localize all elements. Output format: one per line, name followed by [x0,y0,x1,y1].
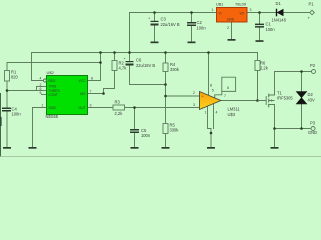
wire C3 leads [154,13,156,42]
svg-text:5: 5 [212,88,214,92]
wire +9V rail [32,52,258,54]
svg-text:OUT: OUT [79,106,86,110]
svg-text:4: 4 [216,111,218,115]
wire U$1 gnd pin2 [231,22,233,39]
svg-text:D2: D2 [308,92,314,97]
svg-text:2,2k: 2,2k [115,111,124,116]
svg-text:43V: 43V [308,98,316,103]
svg-text:2: 2 [227,26,229,30]
wire R4 chain [165,53,167,124]
TVS diode D2 43V [296,92,315,104]
wire 555 pin1 ground [33,108,47,148]
wire R1 bottom to TRIG/THR [7,87,37,91]
svg-text:100n: 100n [197,26,207,31]
ground T1/P3 [271,147,279,149]
voltage regulator U$1 78L09 [212,2,252,31]
ground opamp [207,147,215,149]
wire ground line to P3 [275,128,311,130]
svg-text:2: 2 [193,91,195,95]
svg-text:4: 4 [40,77,42,81]
wire top rail [130,12,277,14]
wire 555 pin7 to R2 [88,71,115,94]
ground C5 [131,147,139,149]
comparator U$3 LM311 [193,84,240,118]
wire R5 bottom [165,134,167,148]
wire opamp balance loop pins 5 6 [215,77,236,98]
svg-text:C2: C2 [197,20,203,25]
svg-text:7: 7 [90,90,92,94]
svg-text:P2: P2 [310,63,316,68]
ground 555 pin1 [29,147,37,149]
svg-text:LM311: LM311 [228,107,241,112]
diode D1 1N4148 [272,1,287,23]
svg-text:P3: P3 [310,121,316,126]
wire R3 to C5 to opamp minus input [125,107,200,109]
resistor R4 [163,62,180,72]
svg-text:7: 7 [224,94,226,98]
wire 555 pin5 stub [42,94,47,96]
svg-text:6: 6 [227,86,229,90]
svg-text:VCC: VCC [79,79,87,83]
svg-text:NE555: NE555 [46,114,59,119]
svg-text:3: 3 [90,104,92,108]
wire C1 leads [259,13,261,41]
svg-text:D1: D1 [276,1,282,6]
wire opamp output [221,100,266,102]
capacitor C3 electrolytic [148,17,180,28]
capacitor C4 [2,107,21,117]
svg-text:78L09: 78L09 [235,2,247,7]
svg-text:2,2k: 2,2k [260,66,269,71]
ground C2 [188,42,196,44]
resistor R2 [112,61,127,71]
wire C4 lower lead [6,111,8,148]
pin 4 inversion bubble [43,79,46,82]
svg-text:100n: 100n [141,133,151,138]
svg-text:RES: RES [49,79,57,83]
wire rail to pin8 of 555 [88,53,101,81]
wire 555 pin3 to R3 [88,107,114,109]
terminal P3 [308,121,317,135]
wire vertical from top rail down to rail and C6 [129,13,131,62]
ground symbols [3,39,279,149]
wire T1 drain top to P2 [275,72,312,96]
wire 555 pin2 stub [37,86,47,88]
svg-text:P1: P1 [309,2,315,7]
svg-text:C3: C3 [161,17,167,22]
resistor R1 [5,70,19,82]
ground U$1 [228,39,236,41]
scan edge artifact left [0,93,1,157]
svg-text:100n: 100n [266,27,276,32]
wire 555 pin6 stub [37,90,47,92]
capacitor C1 [255,22,275,33]
capacitor C5 [130,128,151,138]
svg-text:1N4148: 1N4148 [272,18,287,23]
svg-text:U$1: U$1 [216,2,224,7]
svg-text:VO: VO [240,12,245,16]
svg-text:3: 3 [193,103,195,107]
resistor R3 [113,100,125,117]
wire opamp pin8 supply [208,53,210,96]
svg-text:22u/16V B: 22u/16V B [136,63,155,68]
wire top rail right of D1 [284,12,310,14]
svg-text:5: 5 [40,91,42,95]
svg-text:1: 1 [42,104,44,108]
wire node to opamp plus input [166,95,200,97]
svg-text:330k: 330k [170,67,180,72]
wire opamp gnd pins 1 4 [208,104,214,148]
resistor R6 [255,61,269,71]
wire D2 bottom lead [301,104,303,129]
svg-text:CONT: CONT [49,93,58,97]
svg-text:8: 8 [210,84,212,88]
wire R6 leads [257,53,259,101]
svg-text:8: 8 [91,77,93,81]
timer IC U$2 NE555 [40,70,94,119]
svg-text:IRF5305: IRF5305 [277,96,293,101]
svg-text:330k: 330k [170,128,180,133]
scan edge artifact bottom [0,155,321,158]
wire R2 top [114,53,116,61]
ground C3 [151,42,159,44]
svg-text:U$3: U$3 [228,112,236,117]
ground C4 [3,147,11,149]
ground C1 [256,40,264,42]
wire T1 source bottom to ground [274,105,276,148]
svg-text:1: 1 [205,111,207,115]
transistor T1 IRF5305 P-MOSFET [258,91,294,108]
svg-text:100n: 100n [12,112,22,117]
wire C2 leads [191,13,193,42]
wire 555 reset pin4 feed [32,53,44,81]
wire C6 bottom to R4/R5 node [130,65,166,85]
svg-text:DIS: DIS [80,92,86,96]
ground R5 [162,147,170,149]
svg-text:VI: VI [219,12,222,16]
capacitor C2 [187,20,206,31]
wire D2 top lead [301,72,303,93]
wire C5 leads [134,108,136,148]
wire R1 leads [6,63,8,108]
svg-text:22u/16V B: 22u/16V B [161,22,180,27]
terminal P2 [310,63,316,74]
svg-text:GND: GND [49,106,57,110]
terminal P1 [308,2,315,21]
svg-text:3: 3 [250,8,252,12]
svg-text:GND: GND [308,130,317,135]
svg-text:820: 820 [11,75,19,80]
capacitor C6 electrolytic [124,57,156,68]
svg-text:4,7k: 4,7k [119,66,128,71]
svg-text:1: 1 [212,8,214,12]
svg-text:U$2: U$2 [47,70,55,75]
svg-text:GND: GND [227,18,235,22]
resistor R5 [163,123,179,134]
svg-text:C6: C6 [136,58,142,63]
wire R1 top line [7,62,101,64]
svg-text:R3: R3 [115,100,121,105]
